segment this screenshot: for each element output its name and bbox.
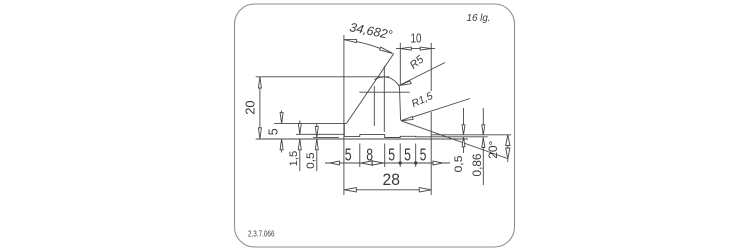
svg-text:20°: 20° <box>486 140 500 158</box>
dim 5 lower line+arrow <box>281 139 283 153</box>
leader R5 <box>399 63 445 86</box>
dimension 20 line <box>259 77 261 139</box>
strip top line (1.5mm level) <box>296 133 344 135</box>
chain ticks <box>359 144 361 168</box>
20 deg bottom open arrow <box>506 148 510 159</box>
dim 10 right extension / chain tick <box>430 43 432 91</box>
angle extension line / first chain tick <box>343 35 345 195</box>
angle arc left arrow <box>344 40 357 43</box>
chain 8-segment double arrow <box>361 161 372 165</box>
R5 centre mark horizontal <box>359 91 409 93</box>
right upper surface line <box>431 134 511 136</box>
angle dimension arc 34,682 <box>344 40 393 54</box>
tooth centre line vertical <box>383 66 385 132</box>
dim 10 right arrow <box>420 47 431 50</box>
svg-text:R5: R5 <box>408 53 427 72</box>
dim 20 bottom arrow <box>258 128 261 139</box>
left plateau surface (5mm level) <box>274 122 347 124</box>
svg-text:5: 5 <box>345 145 352 165</box>
dim 1,5 lower line+arrow <box>299 139 301 171</box>
dim 0,5 left upper line+arrow <box>316 124 318 138</box>
short 0.5mm line <box>313 136 339 138</box>
svg-text:0,5: 0,5 <box>453 156 465 173</box>
plateau right vertical edge <box>343 123 345 136</box>
apex extension line (top of tooth, 20mm level) <box>256 76 390 78</box>
svg-text:10: 10 <box>411 32 422 46</box>
dim 10 line <box>396 48 435 50</box>
svg-text:20: 20 <box>243 100 258 114</box>
dim 10 left arrow <box>400 47 411 50</box>
tooth outline with R5 crest and R1.5 root <box>375 77 403 121</box>
svg-text:0,5: 0,5 <box>305 152 317 169</box>
svg-text:5: 5 <box>266 128 280 135</box>
baseline (bottom reference) <box>256 138 468 140</box>
dim 20 top arrow <box>258 77 261 88</box>
svg-text:16 lg.: 16 lg. <box>467 12 491 24</box>
svg-text:8: 8 <box>366 145 373 165</box>
angle arc right arrow <box>380 47 393 53</box>
tooth flank construction line (34.682 deg) <box>347 54 394 124</box>
right dim 0,86 upper line+arrow <box>482 108 484 135</box>
drawing frame <box>235 4 515 247</box>
dim 1,5 upper line+arrow <box>299 121 301 135</box>
svg-text:1,5: 1,5 <box>288 151 300 167</box>
dim 10 left extension <box>399 43 401 84</box>
leader R1,5 <box>401 99 470 121</box>
dim 0,5 left lower line+arrow <box>316 139 318 171</box>
dim 28 line <box>344 189 431 191</box>
chain outside arrow right <box>433 161 443 165</box>
20 deg dimension line <box>507 135 509 162</box>
svg-text:28: 28 <box>383 171 400 189</box>
right dim 0,86 lower line+arrow <box>482 138 484 186</box>
svg-text:R1,5: R1,5 <box>410 90 435 110</box>
dim 28 left open arrow <box>344 188 356 192</box>
20 deg flank line to the right <box>403 121 508 158</box>
chain dimension line <box>325 162 450 164</box>
20 deg top open arrow <box>506 135 510 146</box>
svg-text:5: 5 <box>420 145 427 165</box>
chain dot ticks <box>399 161 402 164</box>
svg-text:5: 5 <box>404 145 411 165</box>
svg-text:5: 5 <box>388 145 395 165</box>
dim 5 upper line+arrow <box>281 111 283 124</box>
R5 centre mark vertical <box>373 86 375 126</box>
svg-text:34,682°: 34,682° <box>348 20 393 42</box>
right dim 0,5 upper line+arrow <box>463 108 465 135</box>
dim 28 right open arrow <box>419 188 431 192</box>
svg-text:2.3.7.066: 2.3.7.066 <box>248 230 275 239</box>
right dim 0,5 lower line+arrow <box>463 137 465 153</box>
chain outside arrow left <box>330 161 340 165</box>
svg-text:0,86: 0,86 <box>472 154 484 177</box>
stepped base profile <box>344 134 487 137</box>
